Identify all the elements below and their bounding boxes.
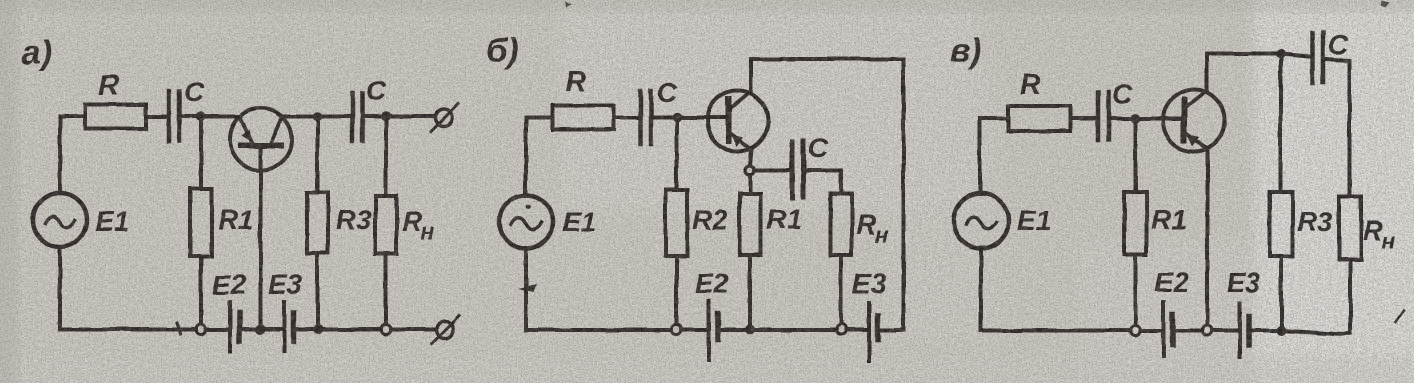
node collector — [312, 112, 322, 122]
rail segment slanted — [1281, 331, 1350, 335]
open node below R2 — [672, 325, 682, 335]
collector lead — [1205, 54, 1209, 91]
resistor Rn — [376, 196, 397, 254]
node — [196, 112, 206, 122]
transistor T1 — [1163, 90, 1225, 152]
wire E1 top to R — [526, 118, 553, 197]
rail segment — [847, 328, 867, 332]
rail segment — [242, 328, 256, 332]
wire C to base — [1111, 117, 1185, 121]
artifact arrow mark — [518, 284, 536, 292]
rail segment — [1252, 329, 1282, 333]
wire node down to R1 — [1134, 122, 1138, 192]
right rail — [902, 59, 906, 330]
wire R2 to rail — [675, 256, 679, 324]
rail segment — [1213, 329, 1238, 333]
battery E3 — [282, 302, 286, 351]
wire R to C — [1070, 117, 1095, 121]
resistor R1 — [740, 194, 761, 255]
rail segment — [720, 328, 745, 332]
bottom rail — [981, 329, 1131, 333]
artifact slash — [1396, 310, 1404, 322]
rail segment — [682, 328, 707, 332]
resistor R — [1008, 106, 1070, 131]
rail segment — [755, 328, 837, 332]
transistor T1 — [230, 109, 292, 171]
battery E2 — [228, 302, 232, 351]
open node below Rn — [381, 325, 391, 335]
open node emitter-rail — [1203, 326, 1213, 336]
wire R1 to rail — [748, 255, 752, 326]
wire R1 to rail — [1134, 255, 1138, 325]
bottom rail — [60, 328, 196, 332]
wire C2 to terminal — [365, 115, 435, 119]
battery E3 — [867, 303, 871, 361]
node below R3 — [313, 325, 323, 335]
capacitor C2 — [350, 93, 355, 141]
wire E1 bottom to rail — [979, 248, 983, 331]
node base-rail — [256, 325, 266, 335]
wire node down to Rn — [384, 120, 388, 196]
wire E1 top to R — [980, 119, 1008, 195]
rail segment — [1141, 329, 1162, 333]
resistor R — [85, 105, 146, 129]
wire C to Rn — [806, 171, 841, 195]
rail tick artifact — [177, 323, 180, 334]
wire C to base — [653, 116, 729, 120]
wire node to C — [754, 169, 790, 173]
node output — [381, 112, 391, 122]
capacitor C emitter — [790, 142, 795, 198]
open node below R1 — [196, 325, 206, 335]
node top — [1275, 49, 1285, 59]
terminal bottom — [437, 321, 454, 338]
transistor T1 — [707, 91, 768, 152]
rail segment — [880, 328, 904, 332]
wire node to C — [1280, 54, 1309, 57]
battery E3 — [1238, 303, 1242, 357]
node below R3 — [1276, 326, 1286, 336]
terminal top — [436, 109, 453, 126]
source E1 — [33, 193, 87, 247]
emitter lead — [1206, 149, 1210, 325]
base lead to rail — [259, 149, 263, 327]
wire Rn to rail — [839, 255, 843, 324]
source E1 — [500, 196, 553, 249]
rail segment — [206, 328, 228, 332]
node below R1 — [745, 325, 755, 335]
wire R3 to rail — [316, 253, 320, 329]
capacitor C — [1096, 92, 1101, 140]
battery E2 — [707, 301, 711, 359]
wire E1 bottom to rail — [524, 248, 528, 330]
resistor R2 — [666, 190, 688, 256]
wire E1 top to R — [60, 117, 85, 194]
capacitor C top — [1310, 33, 1315, 83]
rail segment — [296, 328, 381, 332]
top rail — [751, 57, 904, 61]
emitter lead — [750, 150, 752, 167]
wire node to transistor — [205, 115, 241, 119]
artifact speck top — [565, 1, 571, 8]
resistor R1 — [191, 189, 212, 256]
resistor R3 — [1270, 192, 1293, 256]
wire C to node — [182, 115, 199, 119]
wire node down to R3 — [316, 120, 320, 192]
rail segment — [391, 328, 435, 332]
wire transistor to node — [283, 115, 314, 119]
capacitor C — [167, 91, 172, 141]
wire R1 to rail — [199, 256, 203, 324]
wire C to Rn — [1326, 59, 1350, 196]
wire R to C — [614, 116, 638, 120]
resistor R3 — [307, 192, 328, 253]
top rail — [1207, 52, 1280, 56]
resistor Rn — [1339, 196, 1361, 260]
collector lead — [749, 59, 753, 91]
node — [672, 113, 682, 123]
wire Rn to rail corner — [1348, 260, 1352, 333]
bottom rail — [526, 328, 672, 332]
battery E2 — [1162, 302, 1166, 356]
wire node down to R1 — [199, 120, 203, 189]
resistor R — [553, 106, 614, 130]
wire node down to R3 — [1279, 58, 1283, 192]
source E1 — [954, 194, 1009, 249]
wire node down to R2 — [675, 121, 679, 190]
wire E1 bottom to rail — [58, 247, 62, 330]
rail segment — [1175, 329, 1203, 333]
rail segment — [265, 328, 282, 332]
resistor R1 — [1125, 192, 1147, 255]
open node below R1 — [1131, 326, 1141, 336]
open node below Rn — [837, 325, 847, 335]
wire R3 to rail — [1279, 256, 1283, 330]
artifact speck top right — [1381, 0, 1390, 7]
resistor Rn — [831, 194, 852, 255]
emitter node — [745, 166, 754, 175]
capacitor C — [638, 91, 643, 144]
wire node down to R1 — [748, 175, 752, 194]
wire R to C — [146, 115, 167, 119]
wire Rn to rail — [384, 254, 388, 324]
wire node to C2 — [320, 115, 350, 119]
node — [1131, 114, 1141, 124]
